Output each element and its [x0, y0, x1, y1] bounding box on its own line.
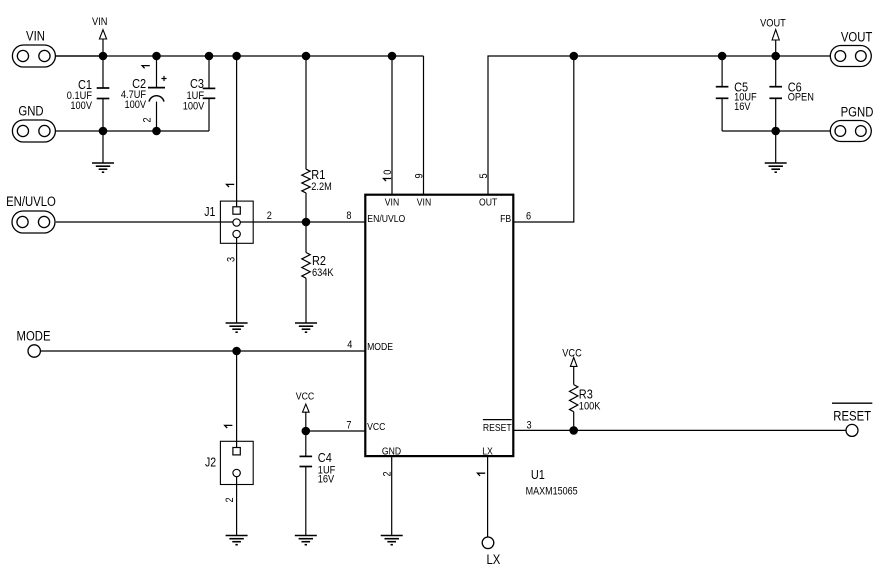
svg-text:PGND: PGND — [841, 105, 874, 120]
capacitor C4 — [300, 431, 313, 536]
svg-text:4: 4 — [347, 339, 352, 351]
capacitor C6 — [769, 56, 782, 131]
svg-text:R3: R3 — [579, 387, 593, 402]
capacitor C5 — [716, 56, 729, 131]
pin number 1 — [478, 473, 486, 476]
wire GND rail — [56, 130, 210, 132]
svg-text:7: 7 — [346, 420, 351, 432]
svg-text:VCC: VCC — [562, 348, 582, 360]
wire J1 pin3 to ground — [236, 238, 238, 323]
svg-text:EN/UVLO: EN/UVLO — [367, 214, 405, 225]
terminal MODE — [28, 345, 40, 357]
net flag VIN — [92, 16, 107, 56]
label RESET with overline — [832, 403, 872, 423]
label J1 pin 1 — [227, 184, 235, 187]
svg-text:6: 6 — [526, 210, 531, 222]
wire LX pin 1 to terminal — [487, 456, 489, 537]
wire pin 10 to VIN rail — [391, 56, 393, 195]
junction C6-PGND — [771, 127, 780, 136]
svg-text:VIN: VIN — [92, 16, 107, 28]
wire J2 pin2 to ground — [236, 477, 238, 536]
wire VIN top rail — [56, 55, 424, 57]
junction C3 top — [205, 52, 214, 61]
connector J2 — [220, 441, 253, 484]
svg-text:100V: 100V — [183, 101, 205, 113]
label C4 value — [318, 450, 336, 486]
svg-text:VOUT: VOUT — [760, 17, 786, 29]
capacitor C1 — [97, 56, 110, 131]
wire OUT rail — [488, 56, 830, 195]
resistor R3 — [570, 385, 578, 431]
wire FB pin 6 to OUT rail — [513, 56, 574, 222]
label J2 pin 1 — [225, 425, 233, 428]
label R1 value — [311, 167, 332, 193]
ground under J1 — [226, 323, 248, 332]
ground under C4 — [295, 536, 317, 545]
ground under R2 — [295, 323, 317, 332]
wire pin 9 to VIN rail — [423, 56, 425, 195]
junction VCC-C4 — [302, 427, 311, 436]
label R2 value — [312, 253, 334, 279]
label C5 value — [734, 79, 757, 113]
wire GND pin 2 to ground — [391, 456, 393, 535]
wire VIN connector to rail — [56, 55, 104, 57]
wire MODE to pin 4 — [41, 350, 366, 352]
label C6 value — [788, 79, 814, 103]
svg-text:2: 2 — [267, 210, 272, 222]
terminal RESET — [846, 424, 858, 436]
junction pin10 — [388, 52, 397, 61]
pin name RESET (3) with overline — [483, 420, 512, 434]
ground under U1 GND — [381, 536, 403, 545]
label C2 pin 1 — [142, 66, 150, 69]
net flag VCC — [296, 391, 315, 432]
junction VOUT flag — [771, 52, 780, 61]
label C2 plus — [161, 76, 166, 81]
svg-text:100V: 100V — [125, 99, 147, 111]
junction FB rail — [570, 52, 579, 61]
junction VIN-C1 — [99, 52, 108, 61]
junction R1 top — [302, 52, 311, 61]
net flag VOUT — [760, 17, 786, 56]
wire J2 pin1 from MODE — [236, 351, 238, 451]
svg-text:3: 3 — [527, 420, 532, 432]
svg-text:EN/UVLO: EN/UVLO — [6, 194, 56, 209]
junction C2 bottom — [152, 127, 161, 136]
wire EN/UVLO to pin 8 — [56, 221, 366, 223]
resistor R1 — [302, 56, 310, 222]
svg-text:LX: LX — [482, 446, 493, 457]
junction MODE-J2 — [232, 347, 241, 356]
capacitor C3 — [203, 56, 216, 131]
junction GND-C1 — [99, 127, 108, 136]
svg-text:100V: 100V — [70, 100, 92, 112]
terminal LX — [482, 537, 494, 549]
svg-text:2.2M: 2.2M — [311, 181, 332, 193]
svg-text:RESET: RESET — [833, 409, 871, 424]
svg-text:16V: 16V — [318, 474, 335, 486]
wire PGND rail — [722, 130, 830, 132]
svg-text:R1: R1 — [311, 167, 325, 182]
label R3 value — [579, 387, 601, 413]
svg-text:VOUT: VOUT — [841, 30, 873, 45]
connector VIN — [12, 45, 55, 67]
connector J1 — [220, 201, 253, 243]
svg-text:C4: C4 — [318, 450, 332, 465]
wire VCC to pin 7 — [306, 430, 366, 432]
svg-text:MODE: MODE — [367, 342, 393, 353]
svg-text:R2: R2 — [312, 253, 326, 268]
wire J1 pin1 from rail — [236, 56, 238, 207]
svg-text:GND: GND — [382, 446, 401, 457]
junction J1 branch — [232, 52, 241, 61]
svg-text:3: 3 — [225, 257, 237, 262]
svg-text:2: 2 — [142, 117, 154, 122]
svg-text:100K: 100K — [579, 401, 601, 413]
svg-text:VIN: VIN — [417, 198, 431, 209]
svg-text:VCC: VCC — [296, 391, 315, 403]
svg-text:2: 2 — [224, 497, 236, 502]
svg-text:GND: GND — [18, 103, 43, 118]
junction C5 top — [718, 52, 727, 61]
svg-text:FB: FB — [500, 214, 511, 225]
junction R1-R2-pin8 — [302, 218, 311, 227]
junction C2 top — [152, 52, 161, 61]
label C3 value — [183, 76, 205, 112]
svg-text:MAXM15065: MAXM15065 — [526, 486, 578, 498]
svg-text:VCC: VCC — [367, 422, 386, 433]
svg-text:J2: J2 — [205, 456, 216, 470]
svg-text:OUT: OUT — [479, 198, 498, 209]
svg-text:16V: 16V — [734, 101, 751, 113]
svg-text:VIN: VIN — [26, 29, 45, 44]
capacitor C2 — [148, 56, 165, 131]
ground under J2 — [226, 536, 248, 545]
resistor R2 — [302, 222, 310, 323]
op-amp U1 MAXM15065 body — [365, 195, 513, 456]
label C2 value — [121, 76, 147, 111]
junction R3-RESET — [569, 426, 578, 435]
svg-text:MODE: MODE — [17, 328, 51, 343]
svg-text:OPEN: OPEN — [788, 91, 814, 103]
svg-text:VIN: VIN — [385, 198, 399, 209]
svg-text:9: 9 — [414, 173, 426, 178]
svg-text:J1: J1 — [204, 205, 215, 219]
svg-text:634K: 634K — [312, 267, 334, 279]
net flag VCC at R3 — [562, 348, 582, 385]
svg-text:0: 0 — [382, 170, 394, 175]
svg-text:8: 8 — [346, 210, 351, 222]
connector GND — [12, 120, 55, 142]
pin number 10 — [382, 170, 394, 181]
label C1 value — [67, 77, 93, 112]
svg-text:LX: LX — [486, 552, 500, 567]
connector PGND — [830, 121, 871, 142]
wire RESET pin 3 to terminal — [513, 429, 846, 431]
ground under C1 — [92, 131, 114, 172]
svg-text:C3: C3 — [190, 76, 204, 91]
connector VOUT — [830, 46, 871, 67]
svg-text:RESET: RESET — [483, 423, 512, 434]
svg-text:5: 5 — [478, 173, 490, 178]
svg-text:U1: U1 — [531, 467, 545, 482]
connector EN/UVLO — [12, 211, 55, 233]
ground under PGND — [765, 131, 787, 172]
